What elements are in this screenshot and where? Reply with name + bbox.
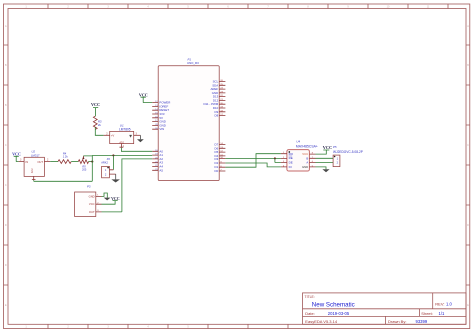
- svg-text:1.2k: 1.2k: [63, 154, 69, 158]
- svg-text:VCC: VCC: [323, 145, 332, 150]
- svg-text:DE: DE: [289, 161, 293, 165]
- svg-text:P3: P3: [87, 185, 91, 189]
- svg-text:C: C: [5, 184, 7, 187]
- svg-text:+V: +V: [111, 134, 115, 138]
- svg-text:VIN: VIN: [159, 127, 164, 131]
- svg-text:VCC: VCC: [91, 102, 100, 107]
- svg-text:2019-03-05: 2019-03-05: [328, 311, 350, 316]
- svg-text:VCC: VCC: [12, 151, 21, 156]
- svg-text:MAX485CSA+: MAX485CSA+: [296, 145, 318, 149]
- svg-text:LM317: LM317: [31, 153, 40, 157]
- svg-text:D0: D0: [214, 169, 218, 173]
- svg-text:93399: 93399: [416, 319, 428, 324]
- svg-text:ADJ: ADJ: [31, 168, 34, 173]
- svg-text:D8: D8: [214, 114, 218, 118]
- svg-text:VCC: VCC: [89, 202, 95, 206]
- svg-text:Drawn By:: Drawn By:: [388, 319, 406, 324]
- svg-text:VCC: VCC: [111, 197, 120, 201]
- svg-text:1/1: 1/1: [439, 311, 445, 316]
- svg-text:GND: GND: [89, 194, 95, 198]
- svg-text:Sheet:: Sheet:: [421, 311, 433, 316]
- svg-text:C: C: [467, 144, 469, 147]
- svg-text:EasyEDA V5.3.14: EasyEDA V5.3.14: [305, 319, 338, 324]
- svg-text:RE: RE: [289, 156, 293, 160]
- svg-text:P2: P2: [107, 157, 111, 161]
- svg-text:UNO_R3: UNO_R3: [187, 61, 199, 65]
- svg-text:REV:: REV:: [435, 302, 444, 307]
- svg-text:LM7805: LM7805: [119, 128, 131, 132]
- svg-text:D: D: [467, 224, 469, 227]
- svg-text:VCC: VCC: [139, 92, 148, 97]
- svg-text:New Schematic: New Schematic: [312, 302, 355, 309]
- svg-text:C: C: [5, 144, 7, 147]
- svg-text:TITLE:: TITLE:: [305, 295, 315, 299]
- svg-text:A: A: [306, 160, 308, 164]
- svg-text:A5: A5: [159, 168, 163, 172]
- svg-text:P5: P5: [333, 145, 337, 149]
- svg-text:WJ2EDGVC-5.08-2P: WJ2EDGVC-5.08-2P: [333, 150, 363, 154]
- svg-text:ARK2: ARK2: [101, 161, 108, 165]
- svg-text:DI: DI: [289, 165, 292, 169]
- svg-text:GND: GND: [302, 165, 308, 169]
- svg-text:OUT: OUT: [89, 210, 95, 214]
- svg-text:IN: IN: [26, 160, 29, 164]
- svg-text:1.0: 1.0: [446, 302, 452, 307]
- svg-text:OUT: OUT: [37, 160, 43, 164]
- svg-text:Date:: Date:: [305, 311, 315, 316]
- svg-text:205: 205: [82, 168, 87, 172]
- svg-text:U4: U4: [296, 140, 300, 144]
- svg-text:D: D: [5, 264, 7, 267]
- svg-text:D: D: [5, 224, 7, 227]
